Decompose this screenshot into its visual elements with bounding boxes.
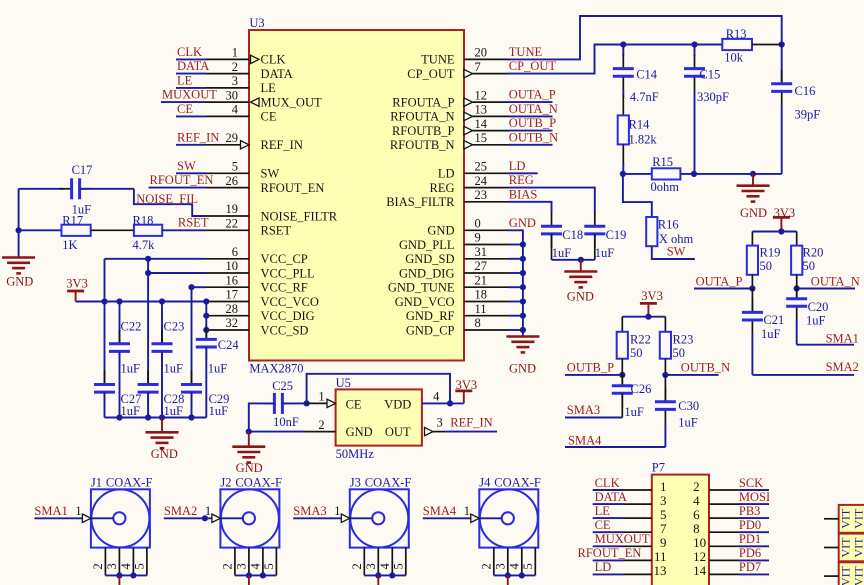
svg-text:OUTB_P: OUTB_P: [567, 360, 614, 374]
svg-text:5: 5: [132, 563, 146, 569]
svg-text:GND: GND: [740, 206, 767, 220]
svg-text:OUT: OUT: [385, 425, 411, 439]
svg-text:18: 18: [475, 288, 488, 302]
svg-text:13: 13: [654, 563, 667, 578]
svg-text:10k: 10k: [724, 51, 744, 65]
svg-text:2: 2: [318, 418, 324, 432]
svg-text:VIT: VIT: [852, 537, 864, 558]
svg-text:1uF: 1uF: [208, 362, 228, 376]
svg-text:C25: C25: [272, 379, 293, 393]
svg-text:SMA2: SMA2: [164, 504, 197, 518]
svg-text:GND_PLL: GND_PLL: [399, 238, 455, 252]
svg-text:REG: REG: [430, 181, 455, 195]
svg-text:14: 14: [475, 117, 488, 131]
svg-text:VDD: VDD: [384, 398, 411, 412]
svg-text:2: 2: [479, 563, 493, 569]
svg-text:NOISE_FILTR: NOISE_FILTR: [261, 209, 338, 223]
svg-text:C15: C15: [699, 68, 720, 82]
svg-text:4: 4: [378, 563, 392, 570]
svg-text:GND_CP: GND_CP: [406, 323, 455, 337]
svg-text:SCK: SCK: [739, 476, 763, 490]
svg-text:4: 4: [248, 563, 262, 570]
svg-text:22: 22: [226, 217, 239, 231]
svg-text:COAX-F: COAX-F: [494, 475, 541, 489]
svg-text:3: 3: [437, 416, 443, 430]
svg-text:TUNE: TUNE: [421, 53, 455, 67]
svg-text:1uF: 1uF: [678, 415, 698, 429]
svg-text:COAX-F: COAX-F: [365, 475, 412, 489]
svg-text:11: 11: [654, 549, 667, 564]
svg-text:RFOUT_EN: RFOUT_EN: [150, 173, 214, 187]
svg-text:RFOUT_EN: RFOUT_EN: [261, 181, 325, 195]
svg-text:5: 5: [262, 563, 276, 569]
svg-text:SMA1: SMA1: [34, 504, 67, 518]
svg-text:CE: CE: [595, 518, 611, 532]
svg-text:OUTA_P: OUTA_P: [696, 274, 743, 288]
svg-text:1uF: 1uF: [595, 246, 615, 260]
svg-text:SMA4: SMA4: [423, 504, 457, 518]
svg-text:REG: REG: [509, 173, 534, 187]
svg-text:OUTA_P: OUTA_P: [509, 88, 556, 102]
svg-text:DATA: DATA: [177, 59, 209, 73]
svg-text:12: 12: [475, 88, 488, 102]
svg-text:9: 9: [475, 231, 481, 245]
svg-text:GND: GND: [346, 425, 373, 439]
svg-text:3V3: 3V3: [66, 276, 88, 290]
svg-text:PD0: PD0: [739, 518, 761, 532]
svg-text:OUTA_N: OUTA_N: [509, 102, 558, 116]
svg-text:PD6: PD6: [739, 546, 761, 560]
svg-text:C30: C30: [678, 399, 699, 413]
svg-text:21: 21: [475, 273, 488, 287]
svg-text:SMA1: SMA1: [826, 331, 859, 345]
svg-text:3: 3: [234, 563, 248, 569]
svg-text:31: 31: [475, 245, 488, 259]
svg-text:OUTB_P: OUTB_P: [509, 116, 556, 130]
svg-text:50: 50: [630, 346, 643, 360]
svg-text:SW: SW: [177, 159, 196, 173]
svg-text:32: 32: [226, 316, 239, 330]
svg-text:SMA4: SMA4: [568, 433, 602, 447]
svg-text:1: 1: [464, 504, 470, 518]
svg-text:4.7k: 4.7k: [133, 238, 156, 252]
svg-text:C24: C24: [218, 338, 240, 352]
svg-text:2: 2: [232, 60, 238, 74]
svg-text:LD: LD: [509, 159, 526, 173]
svg-text:MAX2870: MAX2870: [249, 362, 303, 376]
svg-text:4: 4: [433, 390, 440, 404]
svg-text:C14: C14: [636, 68, 658, 82]
svg-text:RFOUTA_N: RFOUTA_N: [390, 110, 454, 124]
svg-text:LD: LD: [438, 167, 455, 181]
svg-text:CE: CE: [177, 102, 193, 116]
svg-text:3: 3: [493, 563, 507, 569]
svg-text:RFOUTA_P: RFOUTA_P: [392, 95, 454, 109]
svg-text:GND_TUNE: GND_TUNE: [388, 281, 455, 295]
svg-text:OUTB_N: OUTB_N: [509, 130, 558, 144]
svg-text:25: 25: [475, 160, 488, 174]
svg-text:1uF: 1uF: [164, 404, 184, 418]
svg-text:C23: C23: [164, 319, 185, 333]
svg-text:5: 5: [660, 507, 667, 522]
svg-text:27: 27: [475, 259, 488, 273]
svg-text:GND: GND: [509, 361, 536, 375]
svg-text:7: 7: [475, 60, 481, 74]
svg-text:R13: R13: [726, 27, 747, 41]
svg-text:1uF: 1uF: [209, 404, 229, 418]
svg-text:1uF: 1uF: [164, 362, 184, 376]
svg-text:VCC_RF: VCC_RF: [261, 281, 308, 295]
svg-text:GND_RF: GND_RF: [406, 309, 455, 323]
svg-text:C17: C17: [72, 163, 93, 177]
svg-text:7: 7: [660, 521, 667, 536]
svg-text:DATA: DATA: [595, 490, 627, 504]
svg-text:BIAS_FILTR: BIAS_FILTR: [386, 195, 455, 209]
svg-text:U5: U5: [336, 376, 351, 390]
svg-text:16: 16: [226, 273, 239, 287]
svg-text:50: 50: [760, 259, 773, 273]
svg-text:5: 5: [391, 563, 405, 569]
svg-text:MUXOUT: MUXOUT: [595, 532, 650, 546]
svg-text:R15: R15: [652, 155, 673, 169]
svg-text:NOISE_FIL: NOISE_FIL: [136, 192, 198, 206]
svg-text:RFOUT_EN: RFOUT_EN: [578, 546, 642, 560]
svg-text:3: 3: [364, 563, 378, 569]
svg-text:R23: R23: [673, 333, 694, 347]
svg-text:R20: R20: [803, 246, 824, 260]
svg-text:VCC_SD: VCC_SD: [261, 323, 309, 337]
svg-text:1uF: 1uF: [624, 405, 644, 419]
svg-text:3V3: 3V3: [641, 289, 663, 303]
svg-text:GND: GND: [151, 447, 178, 461]
svg-text:2: 2: [693, 479, 700, 494]
svg-text:GND_VCO: GND_VCO: [395, 295, 455, 309]
svg-text:24: 24: [475, 174, 488, 188]
svg-text:VIT: VIT: [839, 508, 853, 529]
svg-text:SMA3: SMA3: [293, 504, 326, 518]
svg-text:SMA3: SMA3: [567, 403, 600, 417]
svg-text:3: 3: [105, 563, 119, 569]
svg-text:9: 9: [660, 535, 667, 550]
svg-text:11: 11: [475, 302, 487, 316]
svg-text:R22: R22: [630, 333, 651, 347]
svg-text:1: 1: [318, 390, 324, 404]
svg-text:2: 2: [220, 563, 234, 569]
svg-text:10nF: 10nF: [273, 415, 299, 429]
svg-text:CP_OUT: CP_OUT: [509, 59, 557, 73]
svg-text:4: 4: [119, 563, 133, 570]
svg-text:SMA2: SMA2: [826, 360, 859, 374]
svg-text:MUXOUT: MUXOUT: [162, 88, 217, 102]
svg-text:U3: U3: [249, 16, 264, 30]
svg-text:CE: CE: [346, 398, 362, 412]
svg-text:5: 5: [521, 563, 535, 569]
svg-text:GND: GND: [509, 216, 536, 230]
svg-text:30: 30: [226, 88, 239, 102]
svg-text:1: 1: [660, 479, 667, 494]
svg-text:RFOUTB_P: RFOUTB_P: [392, 124, 455, 138]
svg-text:LE: LE: [261, 81, 277, 95]
svg-text:1: 1: [334, 504, 340, 518]
svg-text:20: 20: [475, 46, 488, 60]
svg-text:PB3: PB3: [739, 504, 761, 518]
svg-text:DATA: DATA: [261, 67, 293, 81]
svg-text:29: 29: [226, 131, 239, 145]
svg-text:GND: GND: [236, 461, 263, 475]
svg-text:1uF: 1uF: [761, 327, 781, 341]
svg-text:19: 19: [226, 202, 239, 216]
svg-text:330pF: 330pF: [697, 90, 729, 104]
svg-text:15: 15: [475, 131, 488, 145]
svg-text:C26: C26: [631, 382, 652, 396]
svg-text:1uF: 1uF: [121, 362, 141, 376]
svg-text:4: 4: [693, 493, 700, 508]
svg-text:1K: 1K: [62, 238, 77, 252]
svg-text:CLK: CLK: [261, 53, 286, 67]
svg-text:GND: GND: [6, 275, 33, 289]
svg-text:VIT: VIT: [852, 508, 864, 529]
svg-text:50: 50: [673, 346, 686, 360]
svg-text:1: 1: [232, 46, 238, 60]
svg-text:VCC_DIG: VCC_DIG: [261, 309, 315, 323]
svg-text:COAX-F: COAX-F: [235, 475, 282, 489]
svg-text:BIAS: BIAS: [509, 187, 538, 201]
svg-text:J3: J3: [350, 475, 361, 489]
svg-text:1uF: 1uF: [552, 246, 572, 260]
svg-text:10: 10: [226, 259, 239, 273]
svg-text:PD7: PD7: [739, 560, 761, 574]
svg-text:R16: R16: [658, 217, 679, 231]
svg-text:VIT: VIT: [852, 565, 864, 585]
svg-text:GND_DIG: GND_DIG: [399, 266, 455, 280]
svg-text:CP_OUT: CP_OUT: [407, 67, 455, 81]
svg-text:J4: J4: [479, 475, 491, 489]
svg-text:17: 17: [226, 288, 239, 302]
svg-text:J1: J1: [91, 475, 102, 489]
svg-text:LE: LE: [595, 504, 611, 518]
svg-text:R17: R17: [62, 213, 83, 227]
svg-text:8: 8: [693, 521, 700, 536]
svg-text:28: 28: [226, 302, 239, 316]
svg-text:CE: CE: [261, 110, 277, 124]
svg-text:13: 13: [475, 103, 488, 117]
svg-text:REF_IN: REF_IN: [261, 138, 303, 152]
svg-text:SW: SW: [667, 244, 686, 258]
svg-text:REF_IN: REF_IN: [450, 416, 492, 430]
svg-text:MOSI: MOSI: [739, 490, 770, 504]
svg-text:C21: C21: [763, 313, 784, 327]
svg-text:39pF: 39pF: [795, 108, 821, 122]
svg-text:RSET: RSET: [178, 215, 209, 229]
svg-text:LD: LD: [595, 560, 612, 574]
svg-text:50: 50: [803, 259, 816, 273]
svg-text:GND: GND: [427, 224, 454, 238]
svg-text:2: 2: [91, 563, 105, 569]
svg-text:CLK: CLK: [595, 476, 620, 490]
svg-text:PD1: PD1: [739, 532, 761, 546]
svg-text:0: 0: [475, 217, 481, 231]
svg-text:P7: P7: [652, 461, 665, 475]
svg-text:CLK: CLK: [177, 45, 202, 59]
svg-text:4: 4: [232, 103, 239, 117]
svg-text:VIT: VIT: [839, 537, 853, 558]
svg-text:LE: LE: [177, 74, 193, 88]
svg-text:REF_IN: REF_IN: [177, 130, 219, 144]
svg-text:J2: J2: [220, 475, 231, 489]
svg-text:3: 3: [232, 74, 238, 88]
svg-text:50MHz: 50MHz: [336, 447, 375, 461]
svg-text:6: 6: [693, 507, 700, 522]
svg-text:VIT: VIT: [839, 565, 853, 585]
svg-text:VCC_PLL: VCC_PLL: [261, 266, 315, 280]
svg-text:6: 6: [232, 245, 238, 259]
svg-text:SW: SW: [261, 167, 280, 181]
svg-text:MUX_OUT: MUX_OUT: [261, 95, 322, 109]
svg-text:3: 3: [660, 493, 667, 508]
svg-text:COAX-F: COAX-F: [106, 475, 153, 489]
svg-text:1: 1: [75, 504, 81, 518]
svg-text:C18: C18: [562, 228, 583, 242]
svg-text:R19: R19: [760, 246, 781, 260]
svg-text:RSET: RSET: [261, 224, 292, 238]
svg-text:TUNE: TUNE: [509, 45, 543, 59]
svg-text:C16: C16: [795, 84, 816, 98]
svg-text:RFOUTB_N: RFOUTB_N: [390, 138, 455, 152]
svg-text:OUTA_N: OUTA_N: [811, 274, 860, 288]
svg-text:26: 26: [226, 174, 239, 188]
svg-text:R18: R18: [133, 213, 154, 227]
svg-text:1uF: 1uF: [806, 313, 826, 327]
svg-text:5: 5: [232, 160, 238, 174]
svg-text:2: 2: [350, 563, 364, 569]
svg-text:23: 23: [475, 188, 488, 202]
svg-text:0ohm: 0ohm: [651, 180, 680, 194]
svg-text:1.82k: 1.82k: [629, 132, 658, 146]
svg-text:1uF: 1uF: [121, 404, 141, 418]
svg-text:12: 12: [693, 549, 706, 564]
svg-text:VCC_VCO: VCC_VCO: [261, 295, 319, 309]
svg-text:C22: C22: [121, 319, 142, 333]
svg-text:8: 8: [475, 316, 481, 330]
svg-text:OUTB_N: OUTB_N: [681, 360, 730, 374]
svg-text:10: 10: [693, 535, 706, 550]
svg-text:4.7nF: 4.7nF: [630, 90, 659, 104]
svg-text:C19: C19: [606, 228, 627, 242]
svg-text:4: 4: [507, 563, 521, 570]
svg-text:C20: C20: [808, 300, 829, 314]
svg-text:VCC_CP: VCC_CP: [261, 252, 308, 266]
svg-text:GND_SD: GND_SD: [405, 252, 454, 266]
svg-text:GND: GND: [567, 289, 594, 303]
svg-text:R14: R14: [629, 117, 651, 131]
svg-text:14: 14: [693, 563, 707, 578]
